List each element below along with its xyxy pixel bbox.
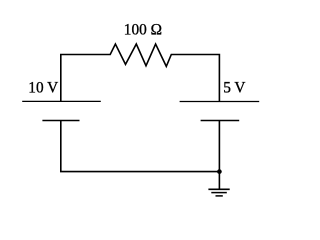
svg-text:100 Ω: 100 Ω: [124, 22, 162, 39]
svg-text:5 V: 5 V: [223, 79, 245, 96]
svg-text:10 V: 10 V: [28, 79, 58, 96]
